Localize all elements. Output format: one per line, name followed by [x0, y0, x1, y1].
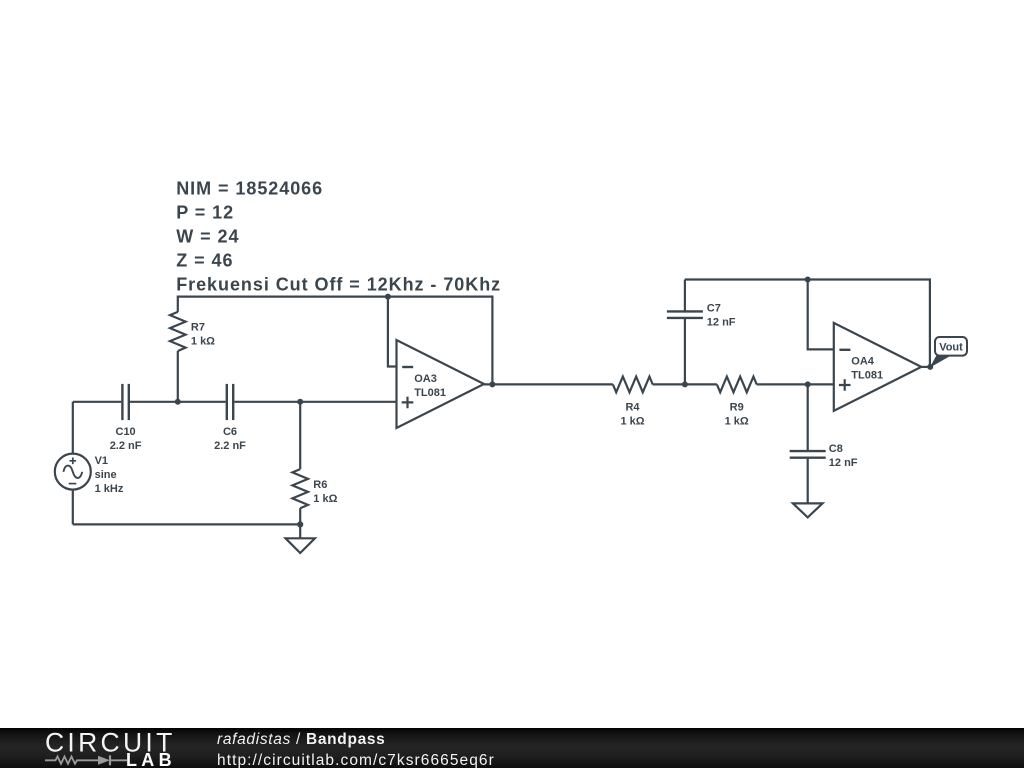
svg-text:1 kΩ: 1 kΩ	[191, 335, 215, 347]
label OA4	[851, 356, 883, 382]
svg-text:R9: R9	[730, 402, 744, 414]
resistor R6	[292, 402, 308, 525]
node OA3 output junction	[489, 381, 495, 387]
label R4 value	[620, 402, 644, 428]
node C8 top junction	[805, 381, 811, 387]
wire input rail segment V1 to C10	[73, 401, 121, 403]
svg-text:C7: C7	[707, 302, 721, 314]
label V1 value	[95, 455, 124, 495]
svg-text:1 kHz: 1 kHz	[95, 483, 124, 495]
node bottom rail ground junction	[297, 521, 303, 527]
capacitor C6	[227, 384, 233, 420]
svg-text:C6: C6	[223, 426, 237, 438]
node C7 bottom junction	[682, 381, 688, 387]
svg-text:2.2 nF: 2.2 nF	[110, 440, 142, 452]
op-amp OA3	[397, 340, 485, 428]
svg-text:1 kΩ: 1 kΩ	[725, 416, 749, 428]
wire R7 bottom to input rail	[177, 351, 179, 402]
svg-text:2.2 nF: 2.2 nF	[214, 440, 246, 452]
node output Vout junction	[927, 364, 933, 370]
node rail-R7 junction	[175, 399, 181, 405]
svg-text:R6: R6	[313, 479, 327, 491]
annotation text block	[176, 179, 501, 295]
flag Vout	[930, 337, 967, 368]
footer bar	[0, 728, 1024, 768]
capacitor C7	[667, 280, 703, 385]
url line	[217, 752, 495, 768]
wire input rail segment C10 to C6	[130, 401, 226, 403]
resistor R9	[717, 377, 757, 393]
resistor R4	[613, 377, 653, 393]
label C7 value	[707, 302, 736, 328]
logo CircuitLab	[30, 728, 230, 768]
svg-text:TL081: TL081	[414, 387, 446, 399]
svg-text:LAB: LAB	[126, 750, 176, 768]
svg-text:C10: C10	[116, 426, 136, 438]
wire OA4 output stub	[921, 366, 930, 368]
wire top feedback right (C7 over OA4)	[685, 280, 930, 367]
svg-text:V1: V1	[95, 455, 108, 467]
svg-text:P = 12: P = 12	[176, 203, 234, 223]
svg-text:NIM = 18524066: NIM = 18524066	[176, 179, 323, 199]
node rail-R6 junction	[297, 399, 303, 405]
svg-text:1 kΩ: 1 kΩ	[313, 493, 337, 505]
svg-text:OA4: OA4	[851, 356, 875, 368]
wire input rail segment C6 to OA3 +	[234, 401, 396, 403]
label OA3	[414, 373, 446, 399]
wire R4 to R9	[653, 383, 717, 385]
label R6 value	[313, 479, 337, 505]
op-amp OA4	[834, 323, 922, 411]
voltage source V1	[55, 402, 91, 525]
capacitor C8	[790, 384, 826, 503]
svg-text:W = 24: W = 24	[176, 227, 239, 247]
capacitor C10	[122, 384, 128, 420]
svg-text:sine: sine	[95, 469, 117, 481]
svg-text:C8: C8	[829, 443, 843, 455]
label R9 value	[725, 402, 749, 428]
svg-text:1 kΩ: 1 kΩ	[620, 416, 644, 428]
wire feedback tap to OA4 inverting input	[808, 280, 834, 350]
wire R9 to OA4 +	[757, 383, 834, 385]
svg-text:Frekuensi Cut Off = 12Khz - 70: Frekuensi Cut Off = 12Khz - 70Khz	[176, 275, 501, 295]
label C10 value	[110, 426, 142, 452]
wire top feedback left (R7 top to OA3 output loop)	[178, 297, 493, 385]
svg-text:12 nF: 12 nF	[707, 316, 736, 328]
svg-text:TL081: TL081	[851, 370, 883, 382]
ground (right)	[793, 503, 823, 517]
svg-text:OA3: OA3	[414, 373, 437, 385]
label C8 value	[829, 443, 858, 469]
svg-text:Vout: Vout	[939, 342, 963, 354]
wire feedback tap to OA3 inverting input	[388, 297, 397, 367]
svg-text:R4: R4	[625, 402, 640, 414]
credit line	[217, 731, 386, 749]
svg-text:Z = 46: Z = 46	[176, 251, 233, 271]
wire OA3 output to R4	[484, 383, 613, 385]
ground (left)	[286, 524, 315, 553]
label R7 value	[191, 321, 215, 347]
wire bottom rail	[73, 523, 300, 525]
node A (feedback junction)	[385, 294, 391, 300]
svg-text:R7: R7	[191, 321, 205, 333]
svg-text:12 nF: 12 nF	[829, 457, 858, 469]
label C6 value	[214, 426, 246, 452]
node C7 top junction	[805, 277, 811, 283]
resistor R7	[170, 312, 186, 351]
